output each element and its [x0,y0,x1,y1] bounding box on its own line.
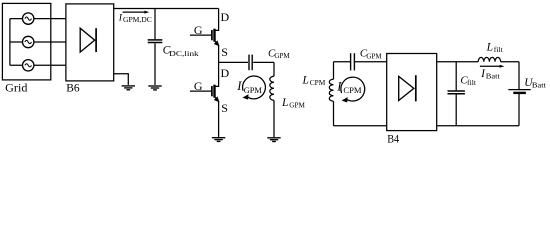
svg-text:G: G [194,79,203,93]
inductor Lfilt [478,57,500,61]
svg-text:filt: filt [494,45,504,54]
svg-text:G: G [194,23,203,37]
svg-text:S: S [221,101,228,115]
svg-text:L: L [302,74,309,86]
svg-text:Batt: Batt [486,71,501,80]
bottom rail right of B4 [437,125,519,127]
svg-text:GPM: GPM [366,51,381,60]
capacitor Cfilt [455,62,457,126]
svg-text:S: S [221,45,228,59]
current loop arrow ICPM [341,77,365,101]
svg-text:GPM: GPM [274,51,289,60]
svg-text:Grid: Grid [5,81,27,95]
svg-text:Batt: Batt [532,80,547,89]
diode in B6 [80,28,95,52]
svg-text:CPM: CPM [310,78,326,87]
capacitor CDC,link [154,9,156,86]
ground (LGPM) [267,138,280,142]
svg-text:CPM: CPM [343,85,361,95]
current loop arrow IGPM [243,76,266,99]
capacitor CGPM (right) [350,53,352,70]
svg-text:GPM: GPM [244,85,262,95]
svg-text:B6: B6 [66,81,79,95]
wire phase 1 [10,18,66,20]
capacitor CGPM (left) [248,55,250,71]
svg-text:L: L [486,41,493,53]
svg-text:DC,link: DC,link [169,49,199,58]
wire B6 to ground [114,74,129,85]
transistor T2 (bottom MOSFET) [190,62,219,136]
wire mid rail [219,61,248,63]
svg-text:L: L [281,97,288,109]
svg-text:I: I [336,79,342,93]
inductor LGPM [270,62,274,137]
svg-text:B4: B4 [387,131,399,145]
top rail right of B4 [437,61,479,63]
arrow IBatt [480,65,501,67]
rectifier B4 box [387,54,437,131]
wire phase 2 [10,41,66,43]
inductor LCPM [329,62,333,126]
svg-text:I: I [236,79,242,93]
svg-text:GPM: GPM [289,100,305,109]
rectifier B6 box [66,4,114,81]
AC source V1 [23,13,34,24]
arrow IGPM,DC [123,11,146,13]
wire DC+ rail [114,8,219,10]
wire phase 3 [10,64,66,66]
bottom rail left of B4 [334,125,387,127]
diode in B4 [399,76,414,100]
ground (B6) [122,86,135,90]
transistor T1 (top MOSFET) [190,9,219,63]
battery UBatt [518,62,520,126]
AC source V3 [23,60,34,71]
CPM circuit: top wire left [334,61,351,63]
ground (CDC,link) [148,86,161,90]
svg-text:D: D [221,10,230,24]
grid bus wire [9,19,11,66]
svg-text:D: D [221,66,230,80]
svg-text:GPM,DC: GPM,DC [123,15,152,24]
svg-text:filt: filt [467,78,477,87]
grid box [2,3,50,80]
AC source V2 [23,36,34,47]
ground (T2 source) [212,138,225,142]
